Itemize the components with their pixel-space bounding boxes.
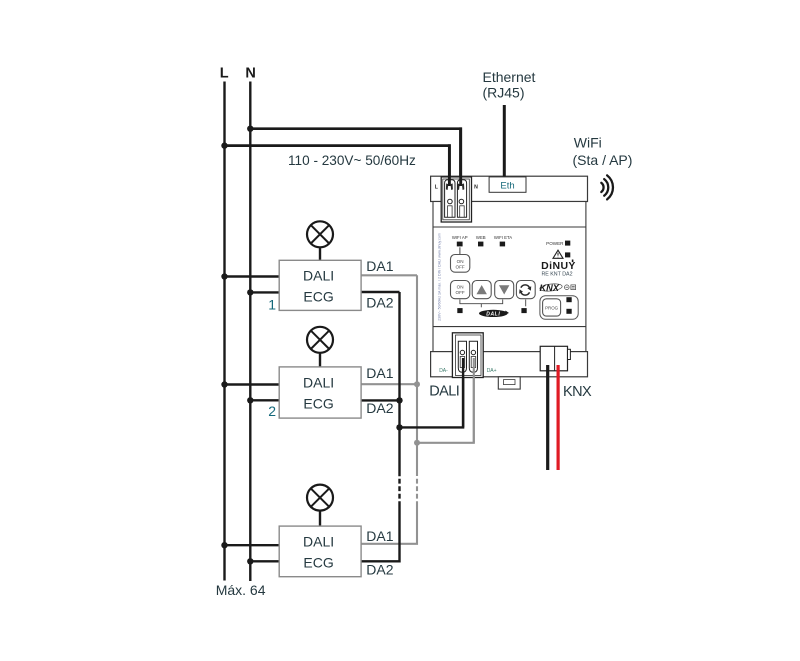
wire DA1 gray bus dashed	[416, 479, 418, 506]
wire L to terminal	[225, 146, 450, 186]
svg-text:2: 2	[268, 403, 276, 419]
wire DA1 gray bus lower	[361, 506, 417, 544]
button up arrow	[472, 281, 491, 299]
wire box2 L feed	[225, 383, 280, 385]
wire N to terminal	[250, 129, 460, 186]
LED dali status right	[521, 308, 526, 313]
svg-text:RE KNT DA2: RE KNT DA2	[541, 271, 572, 277]
junction box1 L	[221, 273, 227, 279]
Ethernet pointer line	[503, 105, 506, 177]
gateway body middle	[433, 202, 586, 352]
button refresh	[516, 281, 535, 299]
junction box2 L	[221, 381, 227, 387]
svg-text:DA-: DA-	[439, 368, 448, 374]
button ON/OFF wifi	[451, 255, 470, 273]
svg-text:110 - 230V~ 50/60Hz: 110 - 230V~ 50/60Hz	[288, 153, 416, 168]
svg-text:DA+: DA+	[487, 368, 497, 374]
LED WIFI ETA	[500, 242, 505, 247]
svg-text:PROG: PROG	[545, 305, 559, 310]
junction box3 N	[247, 558, 253, 564]
svg-text:N: N	[245, 66, 255, 82]
button ON/OFF dali	[451, 281, 470, 299]
lamp 2	[307, 327, 333, 367]
svg-text:DALI: DALI	[303, 268, 334, 284]
svg-text:DA1: DA1	[366, 258, 393, 274]
svg-text:DiNUY: DiNUY	[541, 260, 576, 272]
LED prog 1	[566, 297, 571, 302]
DALI ECG 2	[279, 367, 361, 418]
svg-text:230V~ 50/60Hz 1A máx. / 2 DIN: 230V~ 50/60Hz 1A máx. / 2 DIN / DALI www…	[438, 233, 442, 321]
svg-text:N: N	[474, 185, 478, 191]
svg-text:DALI: DALI	[303, 375, 334, 391]
svg-text:DA2: DA2	[366, 294, 393, 310]
DALI logo oval	[479, 310, 509, 318]
wire N drop	[459, 127, 462, 186]
button PROG	[543, 299, 561, 316]
svg-text:DA1: DA1	[366, 528, 393, 544]
gateway face panel	[433, 226, 586, 228]
svg-text:WiFi: WiFi	[574, 134, 602, 150]
wire DA1 gray bus upper	[416, 275, 418, 476]
svg-text:(RJ45): (RJ45)	[483, 85, 525, 101]
terminal block KNX	[540, 346, 570, 371]
DALI ECG 1	[279, 260, 361, 310]
wire DA2 black bus upper	[398, 292, 400, 476]
wire DA2 black box1	[361, 291, 400, 293]
face LED labels	[452, 235, 512, 240]
wire DA1 gray box1	[361, 274, 417, 276]
certification marks	[565, 285, 576, 290]
lamp 3	[307, 485, 333, 526]
svg-text:ECG: ECG	[303, 395, 333, 411]
wire L drop	[448, 144, 451, 186]
junction DA- bus	[396, 424, 402, 430]
svg-text:Eth: Eth	[500, 180, 514, 191]
wire L line	[223, 82, 225, 581]
wire box1 L feed	[225, 275, 280, 277]
gateway body top strip	[431, 176, 588, 201]
svg-text:WIFI AP: WIFI AP	[452, 235, 468, 240]
wire KNX red	[556, 365, 559, 470]
wire DA1 gray box2	[361, 383, 417, 385]
KNX logo	[539, 283, 562, 293]
svg-text:OFF: OFF	[456, 290, 465, 295]
svg-text:WEB: WEB	[476, 235, 486, 240]
junction box3 L	[221, 542, 227, 548]
junction L mains	[221, 142, 227, 148]
wire DA2 black box2	[361, 399, 400, 401]
LED dali status left	[457, 308, 462, 313]
svg-text:1: 1	[268, 296, 276, 312]
svg-text:DALI: DALI	[303, 534, 334, 550]
wire DA+ drop	[473, 358, 475, 443]
svg-text:KNX: KNX	[540, 283, 560, 293]
svg-text:WIFI ETA: WIFI ETA	[494, 235, 512, 240]
Eth port	[489, 177, 526, 192]
LED WIFI AP	[457, 242, 463, 247]
svg-text:(Sta / AP): (Sta / AP)	[573, 152, 633, 168]
svg-text:DALI: DALI	[486, 311, 500, 317]
wire KNX black	[546, 365, 549, 470]
svg-text:L: L	[220, 66, 229, 82]
svg-text:DA2: DA2	[366, 400, 393, 416]
svg-text:OFF: OFF	[456, 264, 465, 269]
junction DA2 box2	[396, 397, 402, 403]
WiFi waves icon	[601, 175, 613, 199]
DiNUY logo	[541, 260, 576, 273]
wire DA+ from terminal	[417, 358, 474, 443]
terminal block DALI	[452, 333, 483, 378]
lamp 1	[307, 221, 333, 260]
svg-text:KNX: KNX	[563, 384, 592, 400]
svg-text:Máx. 64: Máx. 64	[216, 582, 266, 598]
wire box3 L feed	[225, 544, 280, 546]
junction N mains	[247, 126, 253, 132]
wire DA2 black bus lower	[361, 506, 400, 561]
LED power	[565, 241, 570, 246]
svg-text:ECG: ECG	[303, 288, 333, 304]
junction DA+ bus	[414, 440, 420, 446]
svg-text:ECG: ECG	[303, 554, 333, 570]
DIN rail clip	[498, 377, 520, 389]
svg-text:POWER: POWER	[546, 241, 564, 246]
svg-text:ON: ON	[457, 259, 464, 264]
svg-text:DA1: DA1	[366, 365, 393, 381]
junction box1 N	[247, 289, 253, 295]
wire N line	[249, 82, 251, 582]
terminal block L/N	[441, 177, 471, 222]
LED knx prog top	[565, 252, 570, 257]
warning triangle	[553, 250, 563, 258]
svg-text:DALI: DALI	[429, 384, 459, 400]
wire DA- from terminal	[400, 358, 464, 427]
LED prog 2	[566, 309, 571, 314]
wire box1 N feed	[250, 291, 279, 293]
LED connector line	[459, 247, 461, 254]
LED WEB	[478, 242, 483, 247]
svg-text:Ethernet: Ethernet	[483, 69, 536, 85]
wire DA- drop	[462, 358, 464, 427]
PROG frame	[540, 296, 578, 320]
DALI ECG 3	[279, 526, 361, 577]
junction box2 N	[247, 397, 253, 403]
svg-text:ON: ON	[457, 285, 464, 290]
button down arrow	[495, 281, 514, 299]
wire DA2 black bus dashed	[398, 479, 400, 506]
wire box3 N feed	[250, 560, 279, 562]
gateway body bottom flare	[431, 352, 588, 377]
svg-text:DA2: DA2	[366, 561, 393, 577]
bracket under buttons	[460, 300, 526, 308]
wire box2 N feed	[250, 399, 279, 401]
junction DA1 box2	[414, 381, 420, 387]
